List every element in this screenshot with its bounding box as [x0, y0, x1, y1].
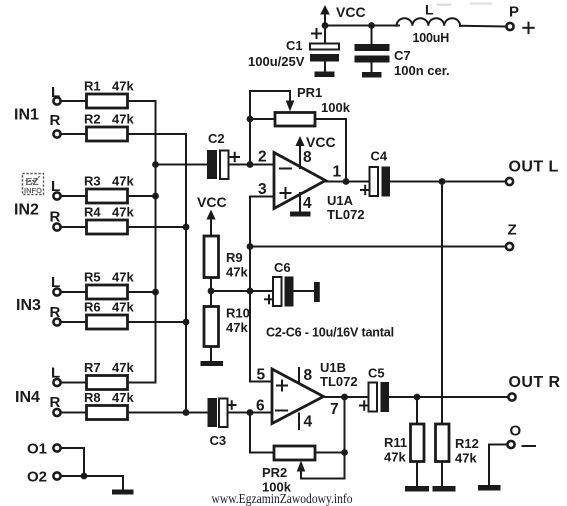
- wire pin7 down to PR2: [344, 397, 346, 453]
- svg-text:R5: R5: [84, 270, 101, 285]
- capacitor C4: [361, 149, 390, 197]
- svg-text:7: 7: [330, 401, 339, 418]
- node OUT R / R11: [414, 394, 421, 401]
- wire L bus vertical: [155, 101, 157, 383]
- svg-text:P: P: [509, 4, 519, 21]
- terminal IN1 R: [53, 130, 60, 137]
- svg-text:100uH: 100uH: [413, 31, 450, 45]
- wire R4 to R bus: [128, 226, 187, 228]
- wire R7 to L bus bottom: [128, 380, 156, 383]
- svg-text:R1: R1: [84, 79, 101, 94]
- potentiometer PR2 100k: [262, 446, 315, 495]
- wire R5 to L bus: [128, 291, 156, 293]
- pin 4 stub U1B: [299, 414, 313, 431]
- resistor R4 47k: [84, 205, 134, 235]
- terminal IN1 L: [53, 97, 60, 104]
- svg-text:1: 1: [333, 164, 342, 181]
- resistor R9 47k: [204, 236, 248, 280]
- svg-text:OUT R: OUT R: [509, 374, 561, 391]
- node R6/R bus: [183, 319, 190, 326]
- wire R8 to C3: [128, 412, 208, 414]
- wire IN4L to R7: [62, 382, 87, 384]
- wire PR2 wiper loop: [301, 453, 345, 479]
- svg-text:OUT L: OUT L: [509, 159, 559, 176]
- node pin2: [247, 161, 254, 168]
- wire O1 to junction: [62, 448, 85, 476]
- wire C5 to OUT R: [389, 396, 507, 398]
- svg-text:47k: 47k: [226, 320, 248, 335]
- svg-text:C2-C6 - 10u/16V tantal: C2-C6 - 10u/16V tantal: [266, 326, 394, 340]
- node pin1/PR1/C4: [343, 178, 350, 185]
- wire OUTL node down to R12: [441, 182, 443, 425]
- svg-text:C3: C3: [210, 433, 227, 448]
- capacitor C5: [360, 366, 389, 413]
- wire R bus vertical: [185, 134, 187, 413]
- resistor R6 47k: [84, 300, 134, 330]
- svg-text:47k: 47k: [384, 450, 406, 465]
- wire IN2R to R4: [62, 226, 87, 228]
- POWERSECTION: [437, 3, 492, 6]
- svg-text:Z: Z: [508, 222, 517, 239]
- terminal IN3 R: [53, 318, 60, 325]
- svg-text:R9: R9: [226, 250, 243, 265]
- svg-text:IN3: IN3: [16, 297, 41, 314]
- svg-text:4: 4: [304, 414, 313, 431]
- terminal OUT R: [508, 374, 560, 401]
- svg-text:3: 3: [258, 181, 267, 198]
- wire R9 to R10: [210, 278, 212, 307]
- wire IN3L to R5: [62, 291, 87, 293]
- capacitor C7 100n cer.: [355, 26, 450, 79]
- resistor R12 47k: [436, 424, 479, 466]
- pin 8 stub U1B: [299, 367, 313, 384]
- terminal IN2 L: [53, 192, 60, 199]
- wire pin3: [250, 196, 274, 198]
- node VCC/C1 junction: [322, 22, 329, 29]
- node bias/C6: [247, 288, 254, 295]
- wire PR1 right to pin1 node: [315, 119, 346, 182]
- svg-text:C7: C7: [394, 48, 411, 63]
- arrow PR1 wiper: [286, 101, 295, 112]
- svg-text:47k: 47k: [112, 174, 134, 189]
- node PR2 right: [341, 449, 348, 456]
- svg-text:8: 8: [303, 149, 312, 166]
- svg-text:R11: R11: [384, 435, 407, 450]
- terminal Z: [506, 222, 517, 251]
- svg-text:O2: O2: [27, 469, 47, 486]
- wire PR1 left stub: [250, 118, 275, 120]
- svg-text:47k: 47k: [112, 300, 134, 315]
- svg-text:C1: C1: [286, 38, 303, 53]
- svg-text:47k: 47k: [112, 112, 134, 127]
- ground below O2: [112, 490, 134, 495]
- wire OUTR node to R11: [416, 397, 418, 424]
- svg-text:47k: 47k: [112, 79, 134, 94]
- terminal IN3 L: [53, 288, 60, 295]
- wire pin1 to C4: [326, 181, 370, 183]
- ground below O: [478, 485, 501, 491]
- svg-text:PR1: PR1: [297, 85, 322, 100]
- svg-text:100n cer.: 100n cer.: [394, 63, 450, 78]
- svg-text:47k: 47k: [226, 265, 248, 280]
- ground below R11: [405, 486, 429, 492]
- capacitor C3: [208, 398, 236, 448]
- resistor R2 47k: [84, 112, 134, 142]
- svg-text:O1: O1: [27, 441, 47, 458]
- wire R11 to ground: [416, 462, 418, 487]
- node Z tap on bias rail: [247, 243, 254, 250]
- node C7 junction: [368, 22, 375, 29]
- wire L to P: [460, 25, 506, 28]
- wire pin5: [250, 381, 272, 383]
- arrow PR2 wiper: [297, 461, 306, 472]
- svg-text:R3: R3: [84, 174, 101, 189]
- wire VCC rail top: [325, 25, 399, 27]
- node R4/R bus: [183, 224, 190, 231]
- svg-text:47k: 47k: [112, 270, 134, 285]
- svg-text:R2: R2: [84, 112, 101, 127]
- ground right of C6: [314, 282, 320, 302]
- op-amp U1B TL072: [272, 360, 358, 424]
- wire C4 to OUT L: [390, 181, 506, 183]
- inductor L 100uH: [397, 2, 461, 46]
- VCC symbol above R9: [197, 194, 227, 236]
- wire R3 to L bus: [128, 195, 156, 197]
- svg-text:VCC: VCC: [197, 194, 227, 210]
- wire Z line: [250, 246, 506, 248]
- svg-text:IN2: IN2: [14, 202, 39, 219]
- svg-text:TL072: TL072: [320, 374, 358, 389]
- potentiometer PR1 100k: [275, 85, 351, 126]
- svg-text:INFO: INFO: [24, 186, 42, 195]
- wire R1 to L bus: [128, 101, 156, 103]
- wire C6 to ground bar: [294, 290, 315, 292]
- wire IN3R to R6: [62, 321, 87, 323]
- wire R2 to R bus: [128, 134, 187, 136]
- wire IN4R to R8: [62, 412, 87, 414]
- node PR1 left: [247, 116, 254, 123]
- node R9/R10 junction: [208, 288, 215, 295]
- wire O to ground: [489, 445, 507, 486]
- svg-text:U1A: U1A: [327, 193, 354, 208]
- resistor R7 47k: [84, 360, 134, 390]
- svg-text:100k: 100k: [321, 100, 351, 115]
- capacitor C6: [265, 260, 294, 307]
- svg-text:C5: C5: [368, 366, 385, 381]
- wire O2 to ground: [62, 476, 124, 490]
- svg-text:C4: C4: [371, 149, 388, 164]
- node O1/O2: [81, 473, 88, 480]
- terminal O2: [53, 472, 60, 479]
- svg-text:R8: R8: [84, 390, 101, 405]
- node R3/L bus: [152, 193, 159, 200]
- capacitor C2: [207, 131, 239, 179]
- svg-text:6: 6: [256, 398, 265, 415]
- wire pin2: [250, 164, 274, 166]
- wire PR1 left vertical: [249, 91, 251, 165]
- svg-text:TL072: TL072: [327, 207, 365, 222]
- wire C2 to pin2: [229, 164, 275, 166]
- terminal OUT L: [506, 159, 559, 186]
- terminal O1: [53, 444, 60, 451]
- terminal IN2 R: [53, 223, 60, 230]
- capacitor C1 100u/25V: [248, 26, 339, 72]
- wire PR2 right stub: [315, 452, 345, 454]
- terminal O minus: [507, 423, 535, 449]
- resistor R11 47k: [384, 424, 424, 465]
- svg-text:U1B: U1B: [320, 360, 346, 375]
- ground below C7: [362, 72, 382, 78]
- svg-text:100u/25V: 100u/25V: [248, 54, 305, 69]
- svg-text:8: 8: [304, 367, 313, 384]
- node C2 tap on L bus: [152, 161, 159, 168]
- svg-text:47k: 47k: [112, 360, 134, 375]
- node R5/L bus: [152, 289, 159, 296]
- ground below R10: [201, 361, 224, 366]
- op-amp U1A TL072: [274, 153, 365, 223]
- svg-text:4: 4: [303, 195, 312, 212]
- resistor R10 47k: [204, 306, 250, 347]
- node R8/R bus: [183, 409, 190, 416]
- svg-text:2: 2: [258, 149, 267, 166]
- VCC symbol top: [320, 4, 365, 26]
- pin 8 VCC arrow U1A: [295, 134, 335, 168]
- wire pin6 down to PR2: [249, 413, 251, 453]
- terminal IN4 L: [53, 379, 60, 386]
- wire R12 to ground: [441, 462, 443, 487]
- node pin7: [341, 394, 348, 401]
- svg-text:R4: R4: [84, 205, 101, 220]
- node OUT L / R12: [439, 178, 446, 185]
- wire IN1L to R1: [62, 100, 87, 102]
- wire R10 to ground: [210, 347, 212, 362]
- svg-text:VCC: VCC: [306, 134, 336, 150]
- terminal P +: [506, 4, 533, 34]
- svg-text:IN4: IN4: [15, 389, 40, 406]
- wire bias rail vertical: [249, 197, 251, 382]
- resistor R8 47k: [84, 390, 134, 420]
- wire pin7 to C5: [324, 396, 369, 398]
- svg-text:O: O: [510, 423, 522, 440]
- svg-text:C6: C6: [274, 260, 291, 275]
- EZ INFO watermark: [23, 174, 44, 196]
- svg-text:R7: R7: [84, 360, 101, 375]
- resistor R5 47k: [84, 270, 134, 300]
- svg-text:VCC: VCC: [336, 4, 366, 20]
- resistor R3 47k: [84, 174, 134, 204]
- svg-text:R6: R6: [84, 300, 101, 315]
- wire L bus to C2: [156, 164, 208, 166]
- svg-text:47k: 47k: [112, 390, 134, 405]
- svg-text:R12: R12: [455, 436, 479, 451]
- svg-text:47k: 47k: [455, 451, 477, 466]
- node pin6: [247, 409, 254, 416]
- wire C3 to pin6: [228, 412, 273, 414]
- svg-text:R10: R10: [226, 306, 250, 321]
- wire PR1 wiper top: [250, 91, 290, 102]
- svg-text:C2: C2: [208, 131, 225, 146]
- svg-text:www.EgzaminZawodowy.info: www.EgzaminZawodowy.info: [212, 491, 353, 506]
- svg-text:47k: 47k: [112, 205, 134, 220]
- pin 4 ground U1A: [290, 193, 312, 217]
- svg-text:PR2: PR2: [262, 465, 287, 480]
- svg-text:R: R: [50, 112, 61, 129]
- wire PR2 left stub: [250, 452, 274, 454]
- svg-text:L: L: [425, 2, 434, 18]
- terminal IN4 R: [53, 409, 60, 416]
- wire divider to bias rail: [211, 290, 271, 292]
- ground below R12: [433, 486, 456, 492]
- wire R6 to R bus: [128, 321, 187, 323]
- ground below C1: [315, 72, 335, 78]
- resistor R1 47k: [84, 79, 134, 109]
- wire IN2L to R3: [62, 195, 87, 197]
- svg-text:IN1: IN1: [14, 107, 39, 124]
- wire IN1R to R2: [62, 133, 87, 135]
